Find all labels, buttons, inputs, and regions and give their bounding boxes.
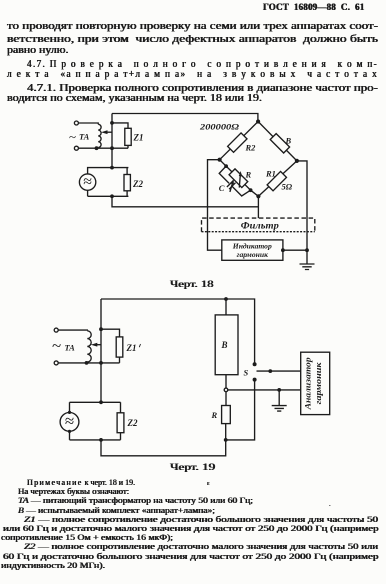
node: indicator output [281,248,285,252]
transformer TA winding [98,124,101,147]
wire: Z1 branch leads [101,329,120,363]
wire: Z2 leads [120,402,122,440]
node: RC join [249,188,253,192]
svg-text:≈: ≈ [83,173,92,190]
svg-text:≈: ≈ [65,411,74,430]
wire: tap node to analyzer [228,389,301,391]
node: RC split [224,164,228,168]
resistor Z2 [124,175,130,191]
analyzer box [301,352,330,414]
resistor Z2 [117,413,124,433]
svg-text:R: R [211,410,218,420]
svg-text:Z1: Z1 [133,133,144,143]
svg-text:ТА: ТА [79,132,90,142]
terminal: input bottom [54,361,58,365]
caption Черт. 19 [170,463,215,473]
resistor Z1 [125,128,131,145]
node: ground junction [277,388,281,392]
node: ground junction [305,248,309,252]
wire: bridge arm R2 [220,122,259,160]
paragraph 4.7.1 line 1 [27,83,378,95]
svg-text:~: ~ [52,336,61,355]
svg-text:~: ~ [69,129,76,144]
wire: tap to R [225,392,227,406]
node: generator bottom junction [99,438,103,442]
caption Черт. 18 [170,280,214,290]
node: R bottom junction [224,438,228,442]
variable resistor R [229,169,248,188]
node: generator terminals [68,411,71,414]
wire: generator loop top [70,402,121,412]
body paragraph 1 line 2 [7,34,378,46]
svg-text:гармоник: гармоник [314,361,323,404]
CIRCUIT 18 SVG [0,108,386,280]
resistor Z1 [116,337,123,357]
wire: generator loop bottom [88,190,129,196]
resistor R1 [267,171,286,190]
wire: top terminal to coil [78,123,98,124]
wire: switch branch bottom [226,380,255,440]
node: bridge left [218,158,222,162]
resistor R2 [228,133,247,152]
wire: bottom rail [101,424,226,456]
body paragraph 1 line 1 [7,21,378,33]
wire: bridge arm B [258,122,297,161]
svg-text:S: S [244,368,249,378]
paragraph 4.7.1 line 2 [7,93,262,105]
svg-text:Фильтр: Фильтр [241,221,280,231]
generator G1 [79,174,95,190]
variable capacitor C [229,183,231,185]
svg-text:гармоник: гармоник [237,250,268,259]
wire: bridge arm RC parallelogram [219,160,258,197]
heading 4.7 line 2 [7,69,378,81]
svg-text:Z1: Z1 [126,343,137,353]
wire: bridge right node to ground rail [297,161,307,250]
device B (bridge arm) [270,134,289,153]
wire: bottom rail to bridge bottom [112,196,258,218]
node: bridge bottom [256,194,260,198]
wire: top terminal to coil [58,329,87,332]
svg-text:C: C [219,183,225,193]
wire: bridge left node to indicator [208,160,222,251]
generator G1 [60,413,79,432]
wire: coil bottom to bottom lead [58,361,119,364]
wire: generator loop top [88,168,129,174]
node: measuring tap (open) [224,388,228,392]
svg-text:В: В [221,340,228,350]
wire: Z2 leads [126,168,128,197]
filter box (dashed) [202,218,315,232]
body paragraph 1 line 3 [7,45,68,57]
node: bridge top [256,119,260,123]
ground [272,390,287,411]
node: switch arm pivot [268,369,272,373]
indicator box [222,240,283,260]
svg-text:Z2: Z2 [132,179,143,189]
node: bridge right [295,159,299,163]
wire: B leads [225,299,227,388]
transformer tap arrow [104,131,112,133]
svg-text:R2: R2 [245,143,257,153]
device B [215,315,238,375]
svg-text:R1: R1 [265,169,276,179]
transformer tap arrow [94,344,101,346]
node: bottom lead junction [99,361,103,365]
svg-text:В: В [285,136,292,146]
terminal: input top [74,121,78,125]
notes [27,478,135,487]
wire: Z1 branch leads [112,123,128,148]
svg-text:200000Ω: 200000Ω [199,121,240,131]
node: bottom lead junction [110,146,114,150]
node: generator top junction [110,166,114,170]
switch S contacts [253,362,257,366]
wire: generator loop bottom [70,431,121,440]
node: coil bottom junction [85,361,89,365]
svg-text:R: R [245,170,252,180]
terminal: input bottom [74,146,78,150]
speck artifact 2 [329,502,331,508]
node: B top junction [224,297,228,301]
node: Z1 tap junction [99,327,103,331]
wire: bridge arm R1 [258,161,297,196]
svg-text:Z2: Z2 [127,418,138,428]
node: generator bottom junction [110,194,114,198]
CIRCUIT 19 SVG [0,290,386,462]
wire: top rail from Z1 branch to bridge top [112,114,258,120]
header [263,2,364,12]
terminal: input top [54,328,58,332]
transformer TA winding [87,331,91,362]
resistor R [222,406,231,424]
node: Z1 tap junction [110,121,114,125]
wire: indicator to ground rail [283,249,307,251]
wire: main left vertical [111,114,113,168]
svg-text:5Ω: 5Ω [282,182,293,192]
wire: top rail [101,299,255,364]
node: generator top junction [99,400,103,404]
svg-text:Анализатор: Анализатор [304,357,313,410]
ground [300,250,315,269]
speck artifact 1 [207,481,210,487]
wire: switch arm to analyzer [257,370,301,372]
wire: coil bottom to bottom lead [78,147,128,150]
svg-text:ТА: ТА [65,343,76,353]
heading 4.7 line 1 [27,59,378,71]
node: coil bottom junction [95,146,99,150]
wire: main left vertical [100,299,102,402]
